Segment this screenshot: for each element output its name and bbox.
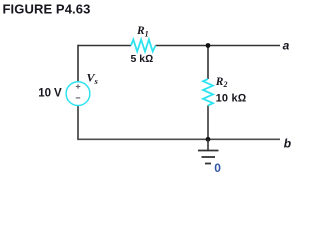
svg-text:5 kΩ: 5 kΩ	[131, 53, 154, 65]
node A (junction dot top)	[206, 43, 211, 48]
wire: bottom segment from left rail to terminal b	[78, 138, 280, 140]
wire: R2 branch lower (R2 to bottom junction)	[207, 106, 209, 140]
svg-text:10 V: 10 V	[38, 87, 62, 99]
wire: R2 branch upper (top junction to R2)	[207, 46, 209, 80]
ground	[198, 139, 219, 163]
minus sign	[76, 97, 80, 99]
plus sign	[76, 84, 80, 88]
wire: top segment from R1 to terminal a	[156, 45, 281, 47]
wire: left rail lower (source bottom to bottom wire)	[77, 105, 79, 140]
wire: top left segment from left rail to R1	[78, 45, 131, 47]
wire: left rail upper (source top to top wire)	[77, 45, 79, 82]
svg-text:b: b	[284, 137, 291, 151]
resistor R2	[203, 79, 213, 106]
svg-text:FIGURE P4.63: FIGURE P4.63	[3, 1, 91, 16]
resistor R1	[131, 40, 156, 52]
svg-text:0: 0	[214, 161, 221, 175]
node B (junction dot bottom)	[206, 137, 211, 142]
svg-text:10 kΩ: 10 kΩ	[216, 93, 247, 105]
voltage source Vs	[66, 82, 90, 106]
svg-text:a: a	[283, 39, 290, 53]
